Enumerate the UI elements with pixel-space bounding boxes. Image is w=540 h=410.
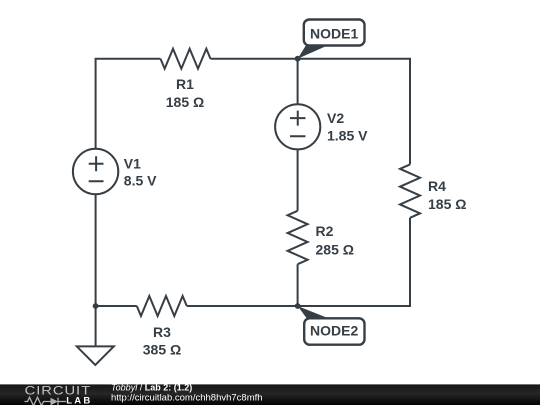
svg-text:385 Ω: 385 Ω bbox=[143, 342, 181, 358]
svg-text:285 Ω: 285 Ω bbox=[316, 242, 354, 258]
svg-text:R2: R2 bbox=[316, 223, 334, 239]
svg-text:Tobbyl / Lab 2: (1.2): Tobbyl / Lab 2: (1.2) bbox=[111, 383, 192, 393]
svg-text:R3: R3 bbox=[153, 324, 171, 340]
svg-text:1.85 V: 1.85 V bbox=[327, 127, 368, 143]
svg-text:LAB: LAB bbox=[66, 395, 92, 405]
svg-text:V1: V1 bbox=[124, 156, 141, 172]
svg-text:NODE2: NODE2 bbox=[310, 322, 358, 338]
svg-text:NODE1: NODE1 bbox=[310, 25, 358, 41]
svg-text:8.5 V: 8.5 V bbox=[124, 173, 157, 189]
svg-text:R1: R1 bbox=[176, 76, 194, 92]
svg-text:V2: V2 bbox=[327, 110, 344, 126]
svg-text:R4: R4 bbox=[428, 178, 446, 194]
svg-text:185 Ω: 185 Ω bbox=[428, 196, 466, 212]
svg-text:185 Ω: 185 Ω bbox=[166, 94, 204, 110]
svg-text:http://circuitlab.com/chh8hvh7: http://circuitlab.com/chh8hvh7c8mfh bbox=[111, 392, 263, 403]
